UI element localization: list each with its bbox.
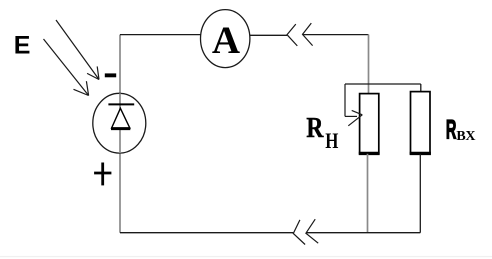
wire bottom left (break to corner): [120, 232, 293, 234]
polarity plus sign: [94, 163, 111, 186]
svg-text:A: A: [212, 19, 240, 62]
wire Rvx top lead: [420, 84, 422, 92]
break marks on bottom wire (chevrons): [293, 219, 318, 244]
faint separator line at page bottom: [0, 256, 492, 257]
ammeter A: [201, 10, 250, 68]
wire top right (ammeter to break): [250, 34, 287, 36]
wire bottom right (Rvx corner to break): [307, 232, 421, 234]
wire Rvx bottom lead: [419, 154, 421, 233]
polarity minus sign: [105, 73, 116, 77]
photodiode wire through body: [119, 93, 121, 153]
svg-text:R: R: [446, 115, 457, 145]
light arrow 2: [44, 39, 89, 96]
photodiode cathode bar: [108, 103, 134, 105]
wire top right (break to corner): [303, 34, 369, 36]
photodiode triangle (anode): [111, 108, 130, 128]
photodiode body (circle): [93, 93, 146, 153]
wire branch horizontal (wiper node to Rvx corner): [345, 83, 421, 85]
svg-text:E: E: [14, 32, 31, 60]
wire top left (corner to ammeter): [120, 34, 201, 36]
wiper arrow of RH (rheostat tap): [345, 84, 362, 126]
light arrow 1: [56, 20, 99, 80]
break marks on top wire (chevrons): [287, 23, 313, 46]
label Rvx (input resistance): [446, 115, 476, 145]
label RH (load resistor): [306, 111, 339, 154]
wire RH bottom lead: [367, 154, 369, 233]
svg-text:H: H: [325, 129, 339, 154]
wire right vertical (corner down to RH top): [368, 35, 370, 94]
svg-text:ВХ: ВХ: [456, 129, 475, 144]
resistor RH body: [359, 94, 380, 154]
wire left vertical (photodiode branch): [119, 35, 121, 233]
resistor Rvx body: [410, 92, 431, 154]
svg-text:R: R: [306, 111, 324, 144]
